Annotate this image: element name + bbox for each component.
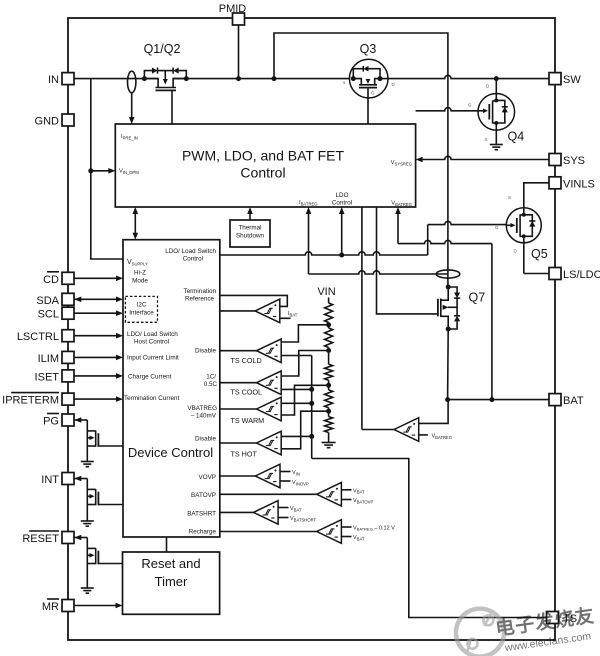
svg-text:G: G (495, 225, 499, 230)
svg-text:IPRETERM: IPRETERM (2, 395, 59, 407)
svg-text:I2C: I2C (137, 302, 147, 309)
svg-text:RESET: RESET (22, 533, 59, 545)
svg-text:SDA: SDA (36, 295, 59, 307)
Q1/Q2 body tap arrow (164, 71, 166, 80)
svg-text:Charge Current: Charge Current (128, 374, 172, 381)
svg-text:Recharge: Recharge (189, 529, 217, 536)
block: Thermal Shutdown (230, 220, 270, 247)
svg-text:Interface: Interface (129, 310, 154, 317)
wire: thermal shutdown arrow into PWM block (249, 211, 251, 220)
wire: MR to Reset and Timer (74, 605, 117, 607)
transistor Q3 (349, 59, 388, 98)
svg-text:Control: Control (332, 200, 352, 207)
svg-text:Thermal: Thermal (238, 225, 261, 232)
wire: BAT line (448, 399, 549, 401)
svg-text:Q1/Q2: Q1/Q2 (144, 42, 181, 56)
diode of Q1 (152, 68, 158, 74)
wire: Q4 gate from PWM block (416, 108, 479, 111)
wire: TS HOT top input from TS net (281, 435, 312, 437)
wire: IN rail (74, 78, 158, 80)
svg-text:G: G (468, 103, 472, 108)
svg-text:LS/LDO: LS/LDO (563, 269, 600, 281)
svg-text:VIN: VIN (292, 470, 300, 476)
wire: VINLS to Q5 source (524, 183, 549, 208)
svg-text:VBATSHORT: VBATSHORT (290, 516, 317, 522)
Q5 body diode (529, 221, 535, 227)
pin INT (62, 473, 74, 485)
svg-text:LSCTRL: LSCTRL (17, 331, 59, 343)
wire: rail to SW pin (380, 75, 549, 78)
Q3 gate bar (359, 87, 377, 89)
node tap1 (326, 322, 331, 327)
wire: Q5 drain to LS/LDO pin (524, 273, 549, 275)
wire: TS COOL bottom input (281, 388, 312, 390)
pin SYS (549, 154, 561, 166)
transistor Q4 (478, 94, 515, 131)
pin CD (62, 272, 74, 284)
svg-text:Reset and: Reset and (141, 556, 200, 571)
node tap4 (326, 409, 331, 414)
svg-text:CD: CD (43, 274, 59, 286)
Q5 internals (523, 208, 525, 215)
transistor Q7 (back-to-back FETs) (446, 285, 451, 290)
wire: TS COLD output (220, 350, 257, 352)
comparator: Recharge (317, 520, 342, 544)
svg-text:VIN_DPM: VIN_DPM (119, 169, 139, 175)
resistor R4 (325, 390, 333, 408)
pin ISET (62, 370, 74, 382)
wire: TS net route to TS pin (312, 459, 549, 618)
svg-text:Timer: Timer (155, 574, 188, 589)
wire: TS COOL output (220, 382, 257, 384)
pin SW (549, 73, 561, 85)
svg-text:VBATREG: VBATREG (391, 201, 412, 207)
svg-text:SW: SW (563, 74, 581, 86)
svg-text:BATSHRT: BATSHRT (187, 511, 216, 518)
resistor R2 (325, 328, 333, 348)
wire: VIN lead (328, 298, 330, 304)
svg-text:Termination: Termination (183, 288, 216, 295)
wire: TS COLD top input from tap1 (281, 325, 328, 342)
pin LS/LDO (549, 268, 561, 280)
svg-text:TS COLD: TS COLD (231, 356, 262, 365)
wire: SCL to Device Control (74, 312, 118, 314)
Q3 channel (353, 79, 361, 85)
svg-text:ILIM: ILIM (38, 353, 59, 365)
block: Device Control (123, 240, 220, 537)
pin TS (547, 612, 559, 624)
svg-text:TS WARM: TS WARM (231, 416, 265, 425)
Q1/Q2 gate bar (156, 89, 177, 91)
wire: IN branch to V_IN_DPM and V_SUPPLY (91, 79, 123, 259)
Q3 body arrow (366, 79, 371, 84)
transistor: open-drain FET for PG (74, 417, 81, 423)
svg-text:SYS: SYS (563, 155, 585, 167)
svg-text:Disable: Disable (195, 436, 216, 443)
wire: CD to Device Control (74, 277, 118, 279)
node: LDO control branch (339, 253, 344, 258)
svg-text:Device Control: Device Control (128, 445, 213, 460)
Q4 body diode (502, 107, 508, 113)
svg-text:VBAT: VBAT (353, 535, 365, 541)
resistor R3 (325, 364, 333, 380)
Q4 internals (479, 110, 485, 112)
wire: Q7 to BAT line (447, 329, 450, 400)
svg-text:VBATREG – 0.12 V: VBATREG – 0.12 V (353, 526, 395, 532)
svg-text:VINLS: VINLS (563, 178, 595, 190)
wire: TS net vertical (311, 356, 313, 459)
wire: Q3 gate to PWM block (367, 88, 369, 124)
current sense ellipse at rail junction (436, 270, 460, 278)
svg-text:– 140mV: – 140mV (191, 413, 217, 420)
wire: bypass rail lower segment through ellipse to Q7 (447, 268, 449, 287)
transistor: open-drain FET for INT (74, 476, 81, 482)
wire: TS WARM top input (281, 402, 312, 404)
wire: Q5 drain to LS/LDO (523, 236, 525, 273)
block: PWM, LDO, and BAT FET Control (115, 124, 415, 207)
comparator: TS WARM (257, 397, 282, 421)
wire: ILIM to Device Control (74, 356, 118, 358)
pin SDA (62, 293, 74, 305)
wire: comparator output to PWM block (361, 207, 363, 430)
I2C interface dashed box (125, 296, 157, 322)
pin SCL (62, 307, 74, 319)
wire: V_BATREG input from BAT (397, 212, 399, 244)
wire: I_BATREG sense line to rail (309, 271, 448, 274)
wire: I_BAT stub (280, 317, 291, 319)
wire: TS WARM bottom input from tap3 (281, 385, 328, 415)
transistor Q5 (506, 208, 541, 243)
pin PG (62, 414, 74, 426)
wire: ISET to Device Control (74, 375, 118, 377)
wire: TS HOT bottom input from tap4 (281, 411, 328, 449)
wire: TS HOT output (220, 442, 257, 444)
svg-text:G: G (371, 91, 375, 96)
wire: IPRETERM to Device Control (74, 398, 118, 400)
Q1/Q2 channel (144, 79, 158, 88)
wire: LDO/Load Switch Control to Q5 gate (220, 252, 428, 255)
transistor: open-drain FET for RESET (74, 535, 81, 541)
Q7 channel (441, 287, 448, 300)
comparator V_BATREG ref stub (419, 434, 428, 436)
svg-text:PWM, LDO, and BAT FET: PWM, LDO, and BAT FET (182, 148, 345, 164)
svg-text:ISET: ISET (35, 371, 60, 383)
comparator: TS COOL (257, 371, 282, 395)
wire: Device Control to Reset and Timer (166, 537, 168, 552)
svg-text:IBATREG: IBATREG (299, 200, 318, 206)
wire: comparator + input from BAT (419, 400, 448, 424)
node tap2 (326, 348, 331, 353)
pin BAT (549, 394, 561, 406)
svg-text:Control: Control (240, 165, 285, 181)
pin VINLS (549, 177, 561, 189)
wire: RESET FET gate (98, 563, 122, 565)
resistor R5 (325, 417, 333, 433)
pin IN (62, 73, 74, 85)
svg-text:INT: INT (41, 474, 59, 486)
current sense ellipse at IN (128, 71, 136, 93)
svg-text:TS HOT: TS HOT (231, 450, 258, 459)
svg-text:Q7: Q7 (469, 291, 486, 305)
Q7 gate bar (437, 299, 439, 317)
comparator: TS HOT (257, 431, 282, 455)
svg-text:TS COOL: TS COOL (231, 388, 263, 397)
svg-text:VIN: VIN (317, 286, 335, 298)
wire: INT FET gate (98, 504, 123, 506)
comparator: termination reference (255, 299, 280, 323)
svg-text:VSYSREG: VSYSREG (391, 160, 412, 166)
svg-text:Termination Current: Termination Current (124, 395, 180, 402)
chip boundary (68, 18, 555, 640)
comparator: BATFET regulation (394, 418, 419, 442)
svg-text:LDO/ Load Switch: LDO/ Load Switch (127, 331, 178, 338)
wire: PWM to Device Control bidirectional (134, 212, 136, 236)
wire: Q1/Q2 bypass middle (158, 70, 174, 72)
svg-text:BAT: BAT (563, 395, 584, 407)
svg-text:SCL: SCL (38, 309, 59, 321)
wire: Termination Reference upper (220, 295, 287, 306)
block: Reset and Timer (123, 552, 220, 614)
svg-text:VBAT: VBAT (290, 506, 302, 512)
node tap3 (326, 383, 331, 388)
wire: Q4 drain (495, 79, 497, 101)
pin PMID (233, 13, 245, 25)
wire: SDA to Device Control (74, 298, 118, 300)
svg-text:IPRE_IN: IPRE_IN (121, 134, 138, 140)
Q3 bypass diode (353, 69, 363, 79)
svg-text:VBATREG: VBATREG (187, 405, 217, 412)
svg-text:Shutdown: Shutdown (236, 233, 265, 240)
svg-text:Host Control: Host Control (134, 339, 169, 346)
svg-text:PMID: PMID (219, 3, 247, 15)
svg-text:Mode: Mode (132, 278, 148, 285)
svg-text:LDO: LDO (336, 192, 349, 199)
comparator: BATSHRT (253, 501, 278, 525)
resistor R1 (325, 303, 333, 323)
wire: PMID stem (238, 24, 240, 79)
wire: TS WARM output (220, 408, 257, 410)
wire: PG FET gate (98, 445, 123, 447)
svg-text:1C/: 1C/ (206, 374, 216, 381)
svg-text:MR: MR (42, 601, 59, 613)
Q7 diode chain (448, 287, 457, 293)
wire: SYS line to PWM block (V_SYSREG) (421, 156, 549, 159)
ground (PG FET) (81, 461, 94, 463)
node: Q4 drain junction (494, 76, 499, 81)
wire: Q4 source to ground (495, 123, 497, 144)
wire: TS COOL top input from tap2 (281, 351, 328, 377)
svg-text:S: S (508, 195, 511, 200)
ground (Q4) (490, 144, 503, 146)
Q7 body tap arrow (448, 306, 457, 308)
svg-text:VBATOVP: VBATOVP (353, 498, 373, 504)
wire: Q2 bypass right (179, 71, 187, 79)
watermark logo (453, 593, 598, 656)
pin MR (62, 600, 74, 612)
svg-text:LDO/ Load Switch: LDO/ Load Switch (165, 248, 216, 255)
wire: Q7 gate from PWM block (377, 207, 438, 314)
svg-text:BATOVP: BATOVP (191, 492, 216, 499)
svg-text:PG: PG (43, 416, 59, 428)
svg-text:GND: GND (35, 116, 60, 128)
svg-text:IBAT: IBAT (288, 311, 298, 317)
comparator: VOVP (255, 464, 280, 488)
node: bypass junction (272, 76, 277, 81)
svg-text:S: S (485, 137, 488, 142)
wire: LSCTRL to Device Control (74, 335, 118, 337)
svg-text:Input Current Limit: Input Current Limit (127, 355, 179, 362)
svg-text:Q4: Q4 (508, 130, 525, 144)
diode of Q2 (173, 68, 179, 74)
ground (INT FET) (81, 520, 94, 522)
svg-text:VOVP: VOVP (199, 474, 217, 481)
svg-text:0.5C: 0.5C (204, 381, 218, 388)
node: PMID junction (236, 76, 241, 81)
transistor Q1/Q2 (back-to-back FETs) (142, 71, 189, 82)
ground (RESET FET) (81, 587, 94, 589)
svg-text:Hi-Z: Hi-Z (134, 270, 146, 277)
wire: Termination comparator output (220, 310, 255, 312)
wire: sense branch into PWM block (131, 93, 133, 119)
pin LSCTRL (62, 330, 74, 342)
wire: Q1/Q2 gate to PWM block (171, 90, 173, 124)
svg-text:VBAT: VBAT (353, 488, 365, 494)
svg-text:VBATREG: VBATREG (432, 434, 453, 440)
comparator: TS COLD (257, 339, 282, 363)
svg-text:Control: Control (183, 256, 203, 263)
ground (divider) (322, 442, 336, 444)
svg-text:VINOVP: VINOVP (292, 480, 309, 486)
pin RESET (62, 532, 74, 544)
comparator: BATOVP (317, 483, 342, 507)
svg-text:Q5: Q5 (531, 247, 548, 261)
wire: I_BATREG input into PWM (308, 212, 310, 275)
pin IPRETERM (62, 393, 74, 405)
wire: top bypass around Q3 (274, 33, 448, 268)
svg-text:Q3: Q3 (360, 42, 377, 56)
pin ILIM (62, 351, 74, 363)
pin GND (62, 114, 74, 126)
svg-text:Reference: Reference (185, 296, 215, 303)
svg-text:IN: IN (48, 74, 59, 86)
svg-text:Disable: Disable (195, 348, 216, 355)
wire: TS COLD bottom input from TS net (281, 355, 312, 357)
